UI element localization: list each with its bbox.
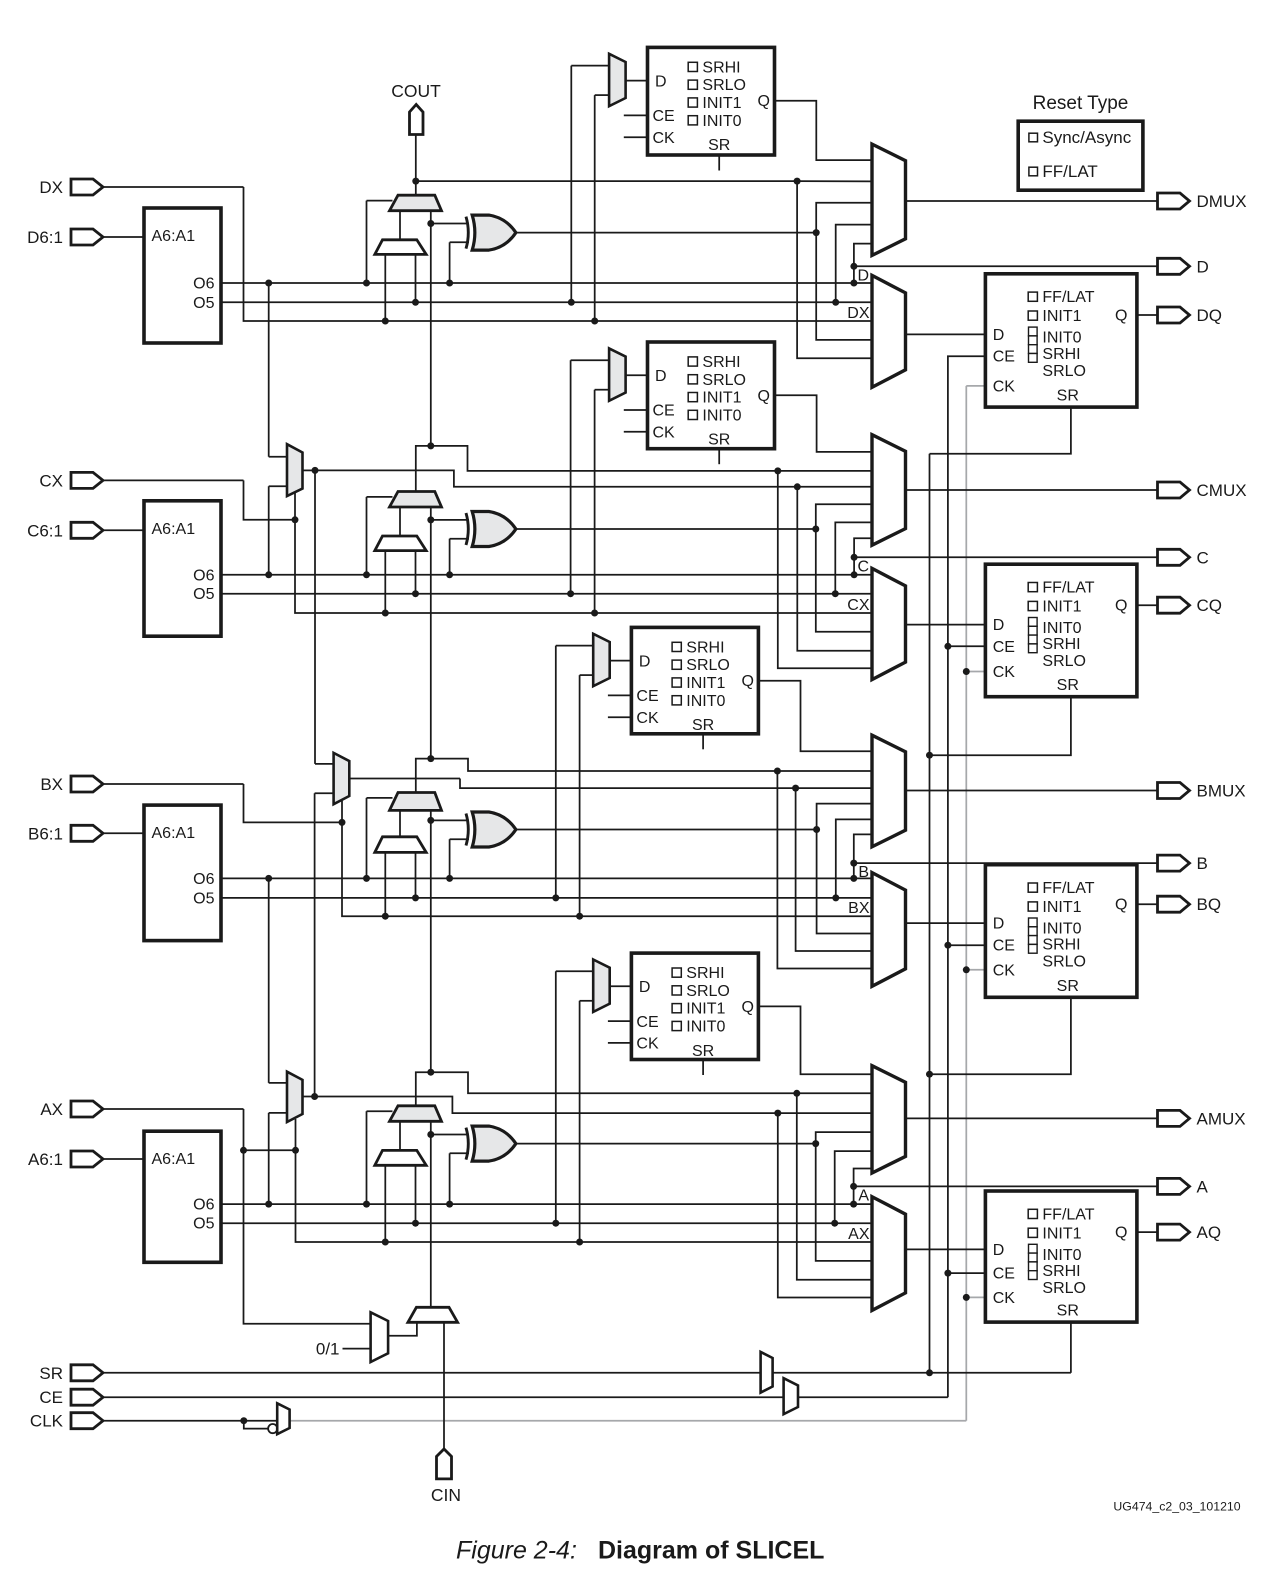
svg-text:A: A [858,1187,869,1204]
svg-text:D: D [857,267,869,284]
svg-text:D: D [1197,257,1209,276]
svg-text:SRLO: SRLO [1042,653,1086,670]
svg-text:SRHI: SRHI [686,639,724,656]
svg-text:SR: SR [708,432,730,449]
svg-text:D: D [639,653,651,670]
svg-text:A6:A1: A6:A1 [152,521,196,538]
svg-text:CK: CK [993,664,1016,681]
svg-text:C: C [857,558,869,575]
svg-text:SRLO: SRLO [702,372,746,389]
svg-text:CQ: CQ [1197,596,1223,615]
svg-text:A: A [1197,1177,1209,1196]
svg-text:Q: Q [1115,308,1127,325]
svg-text:SR: SR [1057,677,1079,694]
svg-text:Q: Q [741,999,753,1016]
svg-text:SR: SR [1057,1303,1079,1320]
svg-text:AX: AX [40,1100,63,1119]
svg-text:FF/LAT: FF/LAT [1042,880,1094,897]
svg-text:SRHI: SRHI [1042,937,1080,954]
svg-text:CE: CE [39,1388,63,1407]
svg-text:CK: CK [636,1036,659,1053]
svg-text:B6:1: B6:1 [28,824,63,843]
svg-text:INIT1: INIT1 [1042,599,1081,616]
svg-text:SRLO: SRLO [1042,954,1086,971]
svg-text:B: B [1197,854,1208,873]
svg-text:INIT0: INIT0 [1042,330,1081,347]
svg-text:O6: O6 [193,276,214,293]
svg-text:INIT0: INIT0 [1042,921,1081,938]
svg-text:CE: CE [636,1014,658,1031]
svg-text:O5: O5 [193,586,214,603]
svg-text:INIT1: INIT1 [702,95,741,112]
svg-text:SR: SR [1057,978,1079,995]
svg-text:Q: Q [741,673,753,690]
svg-text:SRHI: SRHI [686,965,724,982]
svg-text:Q: Q [1115,897,1127,914]
svg-text:INIT1: INIT1 [1042,899,1081,916]
svg-text:INIT0: INIT0 [702,113,741,130]
svg-text:Diagram of SLICEL: Diagram of SLICEL [598,1537,824,1565]
svg-text:SR: SR [1057,388,1079,405]
svg-text:O6: O6 [193,871,214,888]
svg-text:D: D [993,617,1005,634]
svg-text:Q: Q [758,388,770,405]
svg-text:INIT1: INIT1 [1042,308,1081,325]
svg-text:SRHI: SRHI [1042,636,1080,653]
svg-text:SRHI: SRHI [1042,1263,1080,1280]
svg-text:AMUX: AMUX [1197,1109,1246,1128]
svg-text:O6: O6 [193,1197,214,1214]
svg-text:CK: CK [993,1290,1016,1307]
svg-text:CK: CK [993,378,1016,395]
svg-text:O5: O5 [193,890,214,907]
svg-text:DQ: DQ [1197,306,1223,325]
svg-text:CE: CE [993,938,1015,955]
svg-text:B: B [858,864,869,881]
svg-text:O6: O6 [193,567,214,584]
svg-text:D6:1: D6:1 [27,228,63,247]
svg-text:SRHI: SRHI [702,354,740,371]
svg-text:Q: Q [1115,1225,1127,1242]
svg-text:Q: Q [1115,598,1127,615]
svg-text:BX: BX [40,775,63,794]
svg-text:FF/LAT: FF/LAT [1042,162,1097,181]
svg-text:UG474_c2_03_101210: UG474_c2_03_101210 [1113,1500,1240,1514]
svg-text:CLK: CLK [30,1412,64,1431]
svg-text:BQ: BQ [1197,895,1222,914]
svg-text:INIT1: INIT1 [1042,1225,1081,1242]
svg-text:SRLO: SRLO [686,657,730,674]
svg-text:D: D [639,979,651,996]
svg-text:C: C [1197,548,1209,567]
svg-text:O5: O5 [193,295,214,312]
svg-text:D: D [655,368,667,385]
svg-text:A6:1: A6:1 [28,1150,63,1169]
svg-text:BMUX: BMUX [1197,782,1246,801]
svg-text:AQ: AQ [1197,1223,1222,1242]
svg-text:CMUX: CMUX [1197,481,1247,500]
svg-text:CE: CE [993,639,1015,656]
svg-text:DX: DX [39,178,63,197]
svg-text:INIT0: INIT0 [686,693,725,710]
svg-text:COUT: COUT [391,81,441,101]
svg-text:SRLO: SRLO [1042,363,1086,380]
svg-text:A6:A1: A6:A1 [152,228,196,245]
svg-text:SR: SR [39,1364,63,1383]
svg-text:SR: SR [692,717,714,734]
svg-text:D: D [993,327,1005,344]
svg-text:O5: O5 [193,1216,214,1233]
svg-text:Figure 2-4:: Figure 2-4: [456,1537,577,1565]
svg-text:CX: CX [847,597,870,614]
svg-text:FF/LAT: FF/LAT [1042,580,1094,597]
svg-text:INIT0: INIT0 [1042,620,1081,637]
svg-text:CX: CX [39,471,63,490]
svg-text:CK: CK [636,710,659,727]
svg-text:D: D [655,73,667,90]
svg-text:CK: CK [653,425,676,442]
svg-text:SRHI: SRHI [702,59,740,76]
svg-text:DMUX: DMUX [1197,192,1247,211]
svg-text:INIT1: INIT1 [686,675,725,692]
svg-text:AX: AX [848,1226,870,1243]
svg-text:INIT0: INIT0 [686,1019,725,1036]
svg-text:FF/LAT: FF/LAT [1042,1206,1094,1223]
svg-text:SRLO: SRLO [686,983,730,1000]
svg-text:A6:A1: A6:A1 [152,1151,196,1168]
svg-text:BX: BX [848,900,870,917]
svg-text:SRHI: SRHI [1042,346,1080,363]
svg-text:SR: SR [708,137,730,154]
svg-text:INIT1: INIT1 [686,1001,725,1018]
svg-text:0/1: 0/1 [316,1340,340,1359]
svg-text:Q: Q [758,93,770,110]
svg-text:Reset Type: Reset Type [1033,93,1129,114]
svg-text:SRLO: SRLO [702,77,746,94]
svg-text:INIT0: INIT0 [1042,1247,1081,1264]
svg-text:CE: CE [653,403,675,420]
svg-text:SR: SR [692,1043,714,1060]
svg-text:CIN: CIN [431,1485,461,1505]
svg-text:D: D [993,916,1005,933]
svg-text:CE: CE [636,688,658,705]
svg-text:C6:1: C6:1 [27,521,63,540]
svg-text:CK: CK [993,962,1016,979]
svg-text:FF/LAT: FF/LAT [1042,289,1094,306]
svg-text:DX: DX [847,305,870,322]
svg-text:INIT1: INIT1 [702,390,741,407]
svg-text:CE: CE [993,1266,1015,1283]
svg-text:CE: CE [993,349,1015,366]
svg-text:INIT0: INIT0 [702,407,741,424]
svg-text:A6:A1: A6:A1 [152,825,196,842]
svg-text:CE: CE [653,108,675,125]
svg-text:Sync/Async: Sync/Async [1042,128,1131,147]
svg-text:SRLO: SRLO [1042,1280,1086,1297]
svg-text:CK: CK [653,130,676,147]
svg-text:D: D [993,1242,1005,1259]
